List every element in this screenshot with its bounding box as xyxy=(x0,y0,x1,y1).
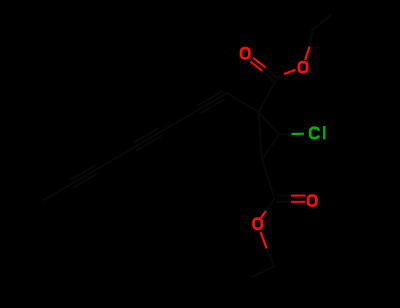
top ester: O-CH2 bond dark half xyxy=(310,30,313,46)
top ester: carbonyl C=O dark half (two lines) xyxy=(262,68,276,82)
bottom ester: O-CH2 bond red half xyxy=(261,232,268,249)
top ester: O-CH2 bond red half xyxy=(305,46,310,60)
bond C1 to top carbonyl carbon xyxy=(259,80,277,112)
top ester: ester O label xyxy=(299,62,307,72)
bottom ester: C-O single bond dark half xyxy=(266,199,275,211)
wire: chain bond C1-P1 xyxy=(227,93,259,112)
top ester: C-O single bond red half xyxy=(284,70,296,74)
Cl label xyxy=(310,126,324,139)
bond C3 to bottom carbonyl carbon xyxy=(262,160,275,199)
wire: triple bond side lines segment P1-P2 xyxy=(198,91,225,113)
bottom ester: CH2-CH3 bond xyxy=(252,267,275,278)
wire: triple bond side lines segment P5-P6 xyxy=(70,166,97,188)
top ester: CH2-CH3 bond xyxy=(313,15,332,30)
bond C2 to Cl dark half xyxy=(279,133,292,136)
top ester: carbonyl O label xyxy=(241,48,249,58)
wire: triple bond side lines segment P3-P4 xyxy=(134,128,161,150)
top ester: carbonyl C=O red half (two lines) xyxy=(250,58,265,71)
bottom ester: C-O single bond red half xyxy=(261,211,266,218)
bottom ester: O-CH2 bond dark half xyxy=(267,249,275,266)
bottom ester: C=O red half (two lines) xyxy=(291,196,306,202)
bottom ester: C=O dark half (two lines) xyxy=(277,196,292,202)
bottom ester: ester O label xyxy=(254,219,262,229)
bond C2 to Cl green half xyxy=(292,133,305,136)
ring: cyclopropane C1-C2-C3 xyxy=(259,112,280,160)
top ester: C-O single bond dark half xyxy=(276,74,284,80)
wire: polyyne chain straight backbone P1-P7 xyxy=(44,93,227,200)
bottom ester: carbonyl O label xyxy=(308,195,316,205)
